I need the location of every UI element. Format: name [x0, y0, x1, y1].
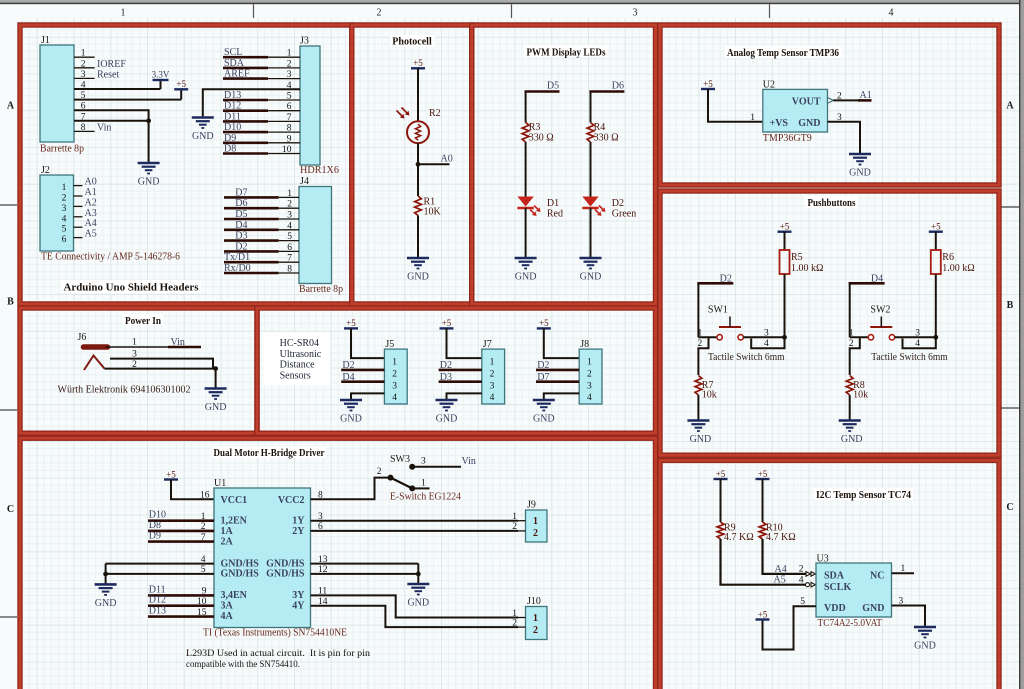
wire U1 pin12 — [311, 573, 419, 575]
net wire D5 — [224, 218, 279, 221]
svg-text:5: 5 — [287, 92, 292, 102]
switch SW1 pin3 wire — [743, 336, 784, 338]
svg-text:10: 10 — [197, 597, 207, 607]
svg-text:16: 16 — [200, 491, 210, 501]
wire +5 to R5 — [784, 232, 786, 250]
svg-text:2: 2 — [533, 625, 538, 636]
connector J5 body — [384, 349, 407, 404]
svg-text:3: 3 — [764, 329, 769, 339]
svg-text:+VS: +VS — [770, 118, 789, 129]
svg-text:5: 5 — [62, 225, 67, 235]
ground (U1 left) — [95, 584, 117, 595]
svg-text:8: 8 — [287, 265, 292, 275]
svg-text:3: 3 — [132, 349, 137, 359]
svg-text:4.7 KΩ: 4.7 KΩ — [766, 532, 796, 543]
wire U1 pin13 — [311, 563, 419, 565]
svg-text:14: 14 — [318, 597, 328, 607]
power symbol +5 (VDD) — [756, 618, 770, 620]
svg-text:5: 5 — [287, 232, 292, 242]
svg-text:HDR1X6: HDR1X6 — [300, 165, 339, 176]
svg-text:J8: J8 — [580, 339, 589, 350]
svg-text:HC-SR04: HC-SR04 — [280, 338, 319, 349]
group box: Analog Temp Sensor TMP36 — [660, 25, 999, 185]
svg-text:6: 6 — [287, 243, 292, 253]
resistor R7 — [695, 376, 702, 396]
wire U1 pin11 (3Y) to J10 pin1 — [311, 595, 519, 617]
net wire D10 — [148, 519, 214, 522]
svg-text:1: 1 — [121, 8, 126, 19]
svg-text:+5: +5 — [780, 222, 790, 232]
connector J7 body — [482, 349, 505, 404]
resistor R8 — [846, 376, 853, 396]
wire D2 to switch pin1 — [697, 283, 699, 337]
svg-text:SDA: SDA — [824, 571, 845, 582]
svg-text:C: C — [7, 504, 14, 515]
J4 pin 5 stub — [279, 240, 299, 242]
svg-text:10: 10 — [282, 145, 292, 155]
J2 pin 6 stub — [74, 237, 83, 239]
svg-text:D2: D2 — [235, 241, 247, 252]
wire +5 to U2 pin1 — [708, 89, 763, 122]
ground (D2) — [580, 258, 602, 269]
net wire D7 — [224, 196, 279, 199]
svg-text:Vin: Vin — [462, 456, 476, 467]
svg-text:SDA: SDA — [224, 58, 245, 69]
svg-text:1Y: 1Y — [292, 516, 305, 527]
wire +5 to R9 — [720, 479, 722, 522]
wire U1 pin8 to SW3 — [311, 478, 389, 500]
wire +5 to J7 pin1 — [447, 328, 482, 358]
svg-text:Arduino Uno Shield Headers: Arduino Uno Shield Headers — [64, 283, 199, 294]
svg-text:13: 13 — [318, 555, 328, 565]
svg-text:Red: Red — [547, 208, 563, 219]
svg-text:GND: GND — [515, 272, 537, 283]
svg-text:2: 2 — [697, 339, 702, 349]
svg-text:2Y: 2Y — [292, 526, 305, 537]
wire D4 to switch pin1 — [849, 283, 851, 337]
J3 pin 8 stub — [268, 131, 300, 133]
net wire D8 — [148, 530, 214, 533]
svg-text:3: 3 — [318, 512, 323, 522]
wire J5 pin4 to ground — [351, 393, 384, 400]
svg-text:1: 1 — [490, 358, 495, 368]
svg-text:1: 1 — [421, 479, 426, 489]
group box: I2C Temp Sensor TC74 — [660, 460, 999, 689]
svg-text:Power In: Power In — [125, 316, 161, 327]
net wire A1 — [858, 99, 872, 102]
svg-text:3: 3 — [899, 596, 904, 606]
svg-text:+5: +5 — [716, 469, 726, 479]
svg-text:D5: D5 — [235, 209, 247, 220]
connector J3 body — [300, 46, 320, 165]
junction (SW2/R6) — [933, 335, 938, 340]
svg-text:PWM Display LEDs: PWM Display LEDs — [527, 48, 606, 59]
wire R3 to D1 — [525, 142, 527, 197]
svg-text:2: 2 — [81, 59, 86, 69]
svg-text:1,2EN: 1,2EN — [221, 516, 248, 527]
svg-text:Green: Green — [612, 208, 636, 219]
junction node A0 — [416, 162, 421, 167]
svg-text:3: 3 — [837, 113, 842, 123]
switch SW2 left contact — [868, 335, 873, 340]
J2 pin 3 stub — [74, 205, 83, 207]
power symbol 3.3V — [153, 79, 169, 81]
IC U1 body SN754410 — [214, 488, 311, 628]
J3 pin 6 stub — [268, 110, 300, 112]
svg-text:4: 4 — [799, 575, 804, 585]
power symbol +5 (R9) — [714, 478, 728, 480]
svg-text:+5: +5 — [176, 79, 186, 89]
ground (J8) — [533, 400, 555, 411]
svg-text:1: 1 — [697, 329, 702, 339]
svg-text:TC74A2-5.0VAT: TC74A2-5.0VAT — [818, 618, 883, 629]
wire J8 pin4 to ground — [544, 393, 579, 400]
svg-text:Vin: Vin — [171, 337, 185, 348]
power symbol +5 (photocell) — [411, 67, 425, 69]
svg-text:Tactile Switch 6mm: Tactile Switch 6mm — [708, 352, 785, 363]
wire +5 to J8 pin1 — [544, 328, 579, 358]
power symbol +5 (R10) — [756, 478, 770, 480]
wire J1 pin7 to GND — [74, 120, 149, 122]
J3 pin 9 stub — [268, 142, 300, 144]
svg-text:SCLK: SCLK — [824, 582, 851, 593]
wire J1 pin5 to +5 — [74, 99, 181, 101]
switch SW1 pin2 wire — [698, 337, 708, 375]
J3 pin 5 stub — [268, 99, 300, 101]
J3 pin 3 stub — [268, 78, 300, 80]
svg-text:GND/HS: GND/HS — [266, 569, 305, 580]
J2 pin 2 stub — [74, 195, 83, 197]
svg-text:GND: GND — [205, 402, 227, 413]
svg-text:GND: GND — [862, 603, 884, 614]
J2 pin 1 stub — [74, 185, 83, 187]
resistor R6 (box style) — [931, 250, 941, 274]
svg-text:D9: D9 — [224, 133, 236, 144]
SW3 pin 2 contact — [388, 475, 394, 481]
J4 pin 8 stub — [279, 272, 299, 274]
svg-text:1: 1 — [287, 189, 292, 199]
J2 pin 4 stub — [74, 216, 83, 218]
svg-text:D9: D9 — [149, 531, 161, 542]
svg-text:+5: +5 — [931, 222, 941, 232]
wire R5 to switch — [784, 274, 786, 337]
svg-text:VOUT: VOUT — [792, 97, 821, 108]
svg-text:2: 2 — [287, 200, 292, 210]
header tick x=769 — [769, 4, 771, 18]
svg-text:8: 8 — [318, 491, 323, 501]
svg-text:AREF: AREF — [224, 69, 250, 80]
switch SW1 right contact — [738, 335, 743, 340]
net wire D8 — [223, 152, 268, 155]
wire junction to ground — [215, 369, 217, 389]
title: Pushbuttons — [805, 196, 858, 208]
svg-text:1: 1 — [849, 329, 854, 339]
svg-text:D8: D8 — [149, 520, 161, 531]
connector J8 body — [579, 349, 602, 404]
svg-text:GND: GND — [798, 118, 820, 129]
svg-text:2: 2 — [287, 59, 292, 69]
wire D1 to ground — [525, 208, 527, 258]
svg-text:GND: GND — [690, 434, 712, 445]
wire D5 to R3 — [525, 92, 527, 123]
svg-text:2: 2 — [512, 522, 517, 532]
wire U2 pin2 (VOUT) — [833, 99, 858, 101]
J4 pin 3 stub — [279, 218, 299, 220]
svg-text:4: 4 — [889, 8, 894, 19]
svg-text:A1: A1 — [860, 90, 872, 101]
svg-text:A: A — [1006, 101, 1014, 112]
svg-text:D13: D13 — [224, 90, 241, 101]
svg-text:C: C — [1006, 502, 1013, 513]
svg-text:7: 7 — [287, 254, 292, 264]
svg-text:1: 1 — [533, 516, 538, 527]
junction J1 pin6/pin7 — [146, 118, 151, 123]
svg-text:1: 1 — [62, 183, 67, 193]
svg-text:A1: A1 — [85, 187, 97, 198]
svg-text:4A: 4A — [221, 611, 234, 622]
wire SW3 pin3 to Vin — [415, 466, 462, 468]
svg-text:J4: J4 — [300, 176, 309, 187]
IC U3 body TC74 — [816, 563, 892, 617]
net wire D2 — [697, 282, 733, 285]
net wire D11 — [223, 120, 268, 123]
svg-text:4: 4 — [764, 339, 769, 349]
HC-SR04 description block — [263, 332, 330, 385]
resistor R3 — [522, 123, 529, 143]
net wire AREF — [223, 77, 268, 80]
svg-text:Würth Elektronik 694106301002: Würth Elektronik 694106301002 — [58, 384, 191, 395]
wire J1 pin6 — [74, 110, 149, 121]
ground (J7) — [436, 400, 458, 411]
net wire D3 — [439, 380, 482, 383]
group box: Arduino Uno Shield Headers — [20, 25, 352, 304]
LED arrows — [530, 210, 534, 214]
net wire D13 — [148, 615, 214, 618]
ground (SW2) — [839, 421, 861, 432]
net wire Tx/D1 — [224, 261, 279, 264]
net wire D4 — [224, 229, 279, 232]
svg-text:J7: J7 — [483, 339, 492, 350]
wire R8 to ground — [849, 395, 851, 421]
svg-text:A5: A5 — [774, 575, 786, 586]
svg-text:A4: A4 — [775, 564, 787, 575]
svg-text:8: 8 — [81, 123, 86, 133]
svg-text:Pushbuttons: Pushbuttons — [808, 198, 856, 209]
group box: Photocell — [352, 25, 472, 304]
svg-text:A: A — [7, 101, 15, 112]
svg-text:330 Ω: 330 Ω — [594, 132, 619, 143]
resistor R1 — [415, 196, 422, 216]
wire R7 to ground — [697, 395, 699, 421]
svg-text:L293D Used in actual circuit.: L293D Used in actual circuit. It is pin … — [186, 648, 370, 659]
svg-text:Ultrasonic: Ultrasonic — [280, 349, 322, 360]
barrel jack J6 barrel — [84, 344, 108, 350]
svg-text:3: 3 — [633, 8, 638, 19]
svg-text:12: 12 — [318, 565, 328, 575]
svg-text:J10: J10 — [527, 596, 541, 607]
wire U1 pin3 (1Y) to J9 pin1 — [311, 520, 519, 522]
wire J1 pin4 to 3.3V — [74, 88, 161, 90]
resistor R9 — [717, 522, 724, 539]
power symbol +5 (R5) — [778, 230, 792, 232]
ground (U3) — [914, 627, 936, 638]
power symbol +5 (J8) — [537, 327, 551, 329]
svg-text:D5: D5 — [547, 80, 559, 91]
svg-text:330 Ω: 330 Ω — [529, 132, 554, 143]
svg-text:1: 1 — [81, 49, 86, 59]
svg-text:VCC2: VCC2 — [278, 495, 305, 506]
net wire D11 — [148, 594, 214, 597]
wire pin4-pin5 elbow to ground — [105, 564, 107, 585]
svg-text:GND: GND — [407, 272, 429, 283]
net wire Vin — [168, 346, 201, 349]
right row tick y=207 — [1001, 206, 1019, 208]
svg-text:Barrette 8p: Barrette 8p — [40, 144, 84, 155]
ground (J5) — [340, 400, 362, 411]
svg-text:4: 4 — [62, 214, 67, 224]
svg-text:3: 3 — [915, 329, 920, 339]
resistor R10 — [759, 522, 766, 539]
svg-text:+5: +5 — [758, 609, 768, 619]
switch SW2 pin2 wire — [850, 337, 860, 375]
svg-text:Analog Temp Sensor TMP36: Analog Temp Sensor TMP36 — [727, 48, 839, 59]
svg-text:9: 9 — [287, 134, 292, 144]
J10 pin2 stub — [518, 626, 526, 628]
svg-text:Reset: Reset — [97, 69, 119, 80]
svg-text:SW2: SW2 — [870, 305, 890, 316]
J4 pin 7 stub — [279, 261, 299, 263]
ground (J3 pin4) — [192, 118, 214, 129]
svg-text:6: 6 — [318, 522, 323, 532]
switch SW1 actuator — [719, 326, 741, 328]
svg-text:7: 7 — [201, 533, 206, 543]
svg-text:6: 6 — [62, 235, 67, 245]
svg-text:1: 1 — [512, 512, 517, 522]
svg-text:GND: GND — [138, 177, 160, 188]
ground (D1) — [515, 258, 537, 269]
ground (SW1) — [687, 421, 709, 432]
svg-text:TMP36GT9: TMP36GT9 — [763, 133, 812, 144]
U3 pin4 markers — [806, 583, 810, 587]
svg-text:4: 4 — [201, 555, 206, 565]
wire +5 to R6 — [935, 232, 937, 250]
svg-text:GND: GND — [841, 434, 863, 445]
U3 pin2 markers — [806, 572, 810, 577]
junction (jack pin2/pin3) — [213, 366, 218, 371]
net wire D9 — [148, 540, 214, 543]
svg-text:7: 7 — [287, 113, 292, 123]
connector J10 body — [526, 607, 548, 640]
svg-text:2: 2 — [799, 565, 804, 575]
svg-text:+5: +5 — [703, 79, 713, 89]
svg-text:D12: D12 — [224, 101, 241, 112]
group box: HC-SR04 sensors — [257, 308, 656, 433]
svg-text:8: 8 — [287, 124, 292, 134]
svg-text:3: 3 — [421, 457, 426, 467]
power symbol +5 (J5) — [344, 327, 358, 329]
J1 pin 7 stub — [74, 120, 95, 122]
svg-text:2: 2 — [132, 360, 137, 370]
J10 pin1 stub — [518, 617, 526, 619]
wire R6 to switch — [935, 274, 937, 337]
group box: Pushbuttons — [660, 191, 999, 455]
group box: Dual Motor H-Bridge Driver — [20, 438, 656, 689]
svg-text:SCL: SCL — [224, 47, 242, 58]
wire U1 pin4 — [106, 563, 214, 565]
svg-text:2: 2 — [533, 528, 538, 539]
right frame band — [1019, 0, 1021, 689]
J1 pin 4 stub — [74, 88, 95, 90]
SW3 pin 1 contact — [409, 485, 415, 491]
wire +5 to J5 pin1 — [351, 328, 384, 358]
switch SW2 pin3 wire — [895, 336, 936, 338]
wire R4 to D2 — [590, 142, 592, 197]
svg-text:GND/HS: GND/HS — [221, 569, 260, 580]
svg-text:E-Switch EG1224: E-Switch EG1224 — [390, 492, 461, 503]
wire R1 to ground — [417, 216, 419, 259]
svg-text:4: 4 — [287, 221, 292, 231]
svg-text:D4: D4 — [235, 220, 247, 231]
svg-text:9: 9 — [202, 587, 207, 597]
svg-text:D1: D1 — [547, 198, 559, 209]
wire junction to ground — [148, 121, 150, 163]
svg-text:+5: +5 — [442, 318, 452, 328]
power symbol +5 (U1) — [164, 478, 178, 480]
svg-text:1: 1 — [533, 613, 538, 624]
net wire D3 — [224, 239, 279, 242]
svg-text:GND: GND — [533, 414, 555, 425]
svg-text:A0: A0 — [85, 177, 97, 188]
svg-text:D6: D6 — [235, 198, 247, 209]
svg-text:D11: D11 — [224, 111, 241, 122]
connector J1 body — [40, 45, 74, 142]
title: I2C Temp Sensor TC74 — [814, 488, 913, 500]
svg-text:4: 4 — [392, 393, 397, 403]
J3 pin 1 stub — [268, 56, 300, 58]
connector J2 body — [40, 175, 74, 251]
LED arrows — [595, 210, 599, 214]
LED D1 — [517, 197, 533, 207]
svg-text:10k: 10k — [853, 390, 868, 401]
svg-text:GND: GND — [849, 168, 871, 179]
net wire D2 — [341, 369, 384, 372]
photocell light arrows — [397, 111, 402, 116]
ground (U2) — [849, 154, 871, 165]
J4 pin 6 stub — [279, 250, 299, 252]
wire U3 pin5 VDD to +5 — [763, 606, 817, 649]
J1 pin 6 stub — [74, 109, 95, 111]
J9 pin1 stub — [518, 520, 526, 522]
svg-text:A4: A4 — [85, 218, 97, 229]
IC U2 body TMP36 — [763, 89, 828, 132]
resistor R4 — [587, 123, 594, 143]
svg-text:2: 2 — [392, 370, 397, 380]
svg-text:J3: J3 — [300, 36, 309, 47]
svg-text:1: 1 — [287, 49, 292, 59]
wire R10 to U3 SDA (A4) — [763, 539, 807, 574]
svg-text:3.3V: 3.3V — [152, 70, 170, 80]
svg-text:2: 2 — [512, 618, 517, 628]
svg-text:2: 2 — [587, 370, 592, 380]
svg-text:A5: A5 — [85, 229, 97, 240]
svg-text:GND: GND — [580, 272, 602, 283]
svg-text:I2C Temp Sensor TC74: I2C Temp Sensor TC74 — [816, 490, 912, 501]
wire SW3 pin1 stub — [415, 487, 430, 489]
svg-text:1: 1 — [750, 113, 755, 123]
net wire D4 — [849, 282, 885, 285]
junction (U1 gnd left) — [103, 572, 108, 577]
connector J9 body — [526, 510, 548, 542]
